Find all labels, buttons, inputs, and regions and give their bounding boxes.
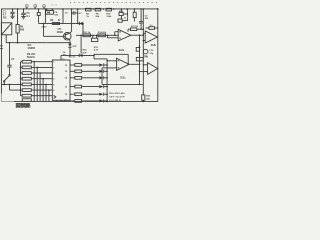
svg-text:C9085: C9085 bbox=[28, 47, 36, 50]
wire op1 out bbox=[131, 34, 144, 36]
left frame tick marks bbox=[0, 46, 3, 49]
node dot frame top-right corner bbox=[157, 8, 159, 10]
svg-text:IC2c: IC2c bbox=[120, 76, 126, 79]
wire feedback op3 out to bus bbox=[94, 54, 129, 65]
capacitor C9 right top bbox=[139, 8, 149, 30]
resistor R13 bbox=[83, 32, 91, 37]
svg-text:P≈0.3W Ω: P≈0.3W Ω bbox=[109, 99, 121, 102]
LED cathode bus bbox=[106, 59, 108, 102]
capacitor C3 drop bbox=[37, 8, 40, 23]
wire x63 bbox=[62, 8, 64, 23]
resistor R14 bbox=[98, 31, 107, 37]
capacitor C1 label bbox=[3, 11, 7, 17]
op-amp IC2c bbox=[117, 58, 130, 79]
resistor R5 bbox=[21, 77, 53, 101]
decorative dashed top edge bbox=[51, 3, 158, 7]
op-amp IC2d bbox=[139, 63, 158, 75]
wire mid band y35.3 bbox=[76, 34, 118, 36]
svg-text:IC2b: IC2b bbox=[151, 44, 157, 47]
paper speckle noise bbox=[4, 4, 158, 108]
resistor R7 bbox=[21, 89, 53, 102]
wire op3 out bbox=[129, 64, 140, 66]
resistor R4 bbox=[21, 72, 53, 102]
node dot rail x12.5 bbox=[12, 8, 14, 10]
node dot rail x23.5 bbox=[23, 8, 25, 10]
label plate 实用电路 bbox=[16, 102, 32, 109]
text IC1 block bbox=[27, 44, 36, 59]
svg-text:100k: 100k bbox=[106, 16, 112, 18]
wire collector riser bbox=[71, 8, 73, 31]
capacitor C5 bbox=[65, 8, 83, 24]
capacitor C8 circle bbox=[143, 49, 154, 55]
wire to IC pin16 bbox=[61, 55, 94, 58]
resistor R10 on rail bbox=[106, 8, 112, 18]
svg-text:R16~R21 43k: R16~R21 43k bbox=[109, 92, 125, 95]
svg-text:5kΩ×8: 5kΩ×8 bbox=[27, 56, 35, 59]
svg-text:680: 680 bbox=[20, 29, 25, 32]
wire y23.4 branch bbox=[39, 8, 83, 23]
text R15 bbox=[94, 47, 99, 52]
scan fade bottom-left corner bbox=[0, 94, 14, 104]
node dots rail resistors bbox=[92, 8, 128, 10]
resistor R7 feedback bbox=[128, 26, 144, 32]
wire op3 in1 bbox=[106, 60, 116, 61]
svg-text:R13 1k: R13 1k bbox=[83, 32, 91, 34]
svg-text:VD7~12×2CP: VD7~12×2CP bbox=[109, 96, 125, 99]
wire left y84.4 bbox=[1, 84, 20, 86]
svg-text:2CP: 2CP bbox=[72, 46, 77, 48]
LED row 4: resistor R19 + diode VD10 bbox=[70, 85, 108, 88]
node dot rail x17.5 bbox=[17, 8, 19, 10]
svg-text:R14 20k: R14 20k bbox=[98, 31, 107, 34]
resistor R5 bbox=[16, 9, 25, 43]
op-amp IC2b bbox=[143, 31, 158, 47]
wire node A (main horizontal y42.7) bbox=[6, 42, 71, 44]
node tag 3 bbox=[43, 5, 46, 9]
vertical rail x143.3 bbox=[143, 8, 145, 84]
diode VD3 bbox=[79, 54, 82, 57]
wire drop x107.4 to op3 bbox=[107, 35, 118, 38]
wire base drop x43.5 bbox=[41, 23, 47, 37]
bus left of ladder bbox=[20, 62, 21, 96]
wire emitter drop bbox=[69, 41, 71, 43]
potentiometer RW bbox=[136, 55, 149, 61]
svg-text:2CP: 2CP bbox=[82, 52, 87, 54]
resistor R8 bbox=[21, 94, 53, 97]
resistor R3 bbox=[21, 66, 53, 101]
diode VD5 bbox=[68, 44, 77, 56]
svg-text:0.1: 0.1 bbox=[26, 15, 30, 18]
photoresistor RG bbox=[1, 17, 11, 43]
diode VD6 loop bbox=[118, 8, 128, 22]
capacitor C10 top bbox=[146, 25, 158, 29]
ground (C2) bbox=[21, 17, 25, 19]
resistor R8 on rail bbox=[86, 8, 92, 18]
node tag 2 bbox=[34, 5, 37, 9]
ground (C1) bbox=[10, 16, 14, 18]
svg-text:RG: RG bbox=[3, 17, 7, 20]
wire x9.5 to row6 bbox=[10, 84, 21, 90]
svg-text:实用电路: 实用电路 bbox=[16, 102, 32, 109]
text LED block values bbox=[109, 92, 125, 102]
LED row 1: resistor R16 + diode VD7 bbox=[70, 63, 108, 66]
resistor R12 vertical top bbox=[133, 8, 136, 21]
resistor R2 bbox=[21, 60, 53, 101]
svg-text:17.1×4: 17.1×4 bbox=[51, 4, 59, 7]
vertical rail x139.5 bbox=[136, 35, 140, 85]
wire drop x114.8 bbox=[114, 32, 118, 36]
component C4 bbox=[46, 8, 59, 16]
IC U1 box bbox=[52, 57, 76, 102]
resistor R9 on rail bbox=[95, 8, 101, 18]
wire bottom mid y84.6 bbox=[102, 83, 143, 85]
LED row 2: resistor R17 + diode VD8 bbox=[70, 70, 108, 73]
capacitor C1 bbox=[10, 9, 14, 16]
svg-text:220V: 220V bbox=[41, 27, 47, 29]
diode VD4 bbox=[79, 22, 83, 36]
trimmer RP1 below bbox=[92, 35, 98, 42]
capacitor C2 bbox=[21, 9, 30, 18]
switch K bbox=[3, 75, 10, 85]
transistor VT1 bbox=[44, 29, 72, 41]
border frame / supply rails bbox=[1, 9, 157, 102]
LED row 3: resistor R18 + diode VD9 bbox=[70, 76, 108, 79]
node tag 1 bbox=[25, 5, 28, 9]
wire op3 in2 bbox=[102, 68, 117, 85]
svg-text:R7 510: R7 510 bbox=[131, 26, 139, 28]
LED row 5: resistor R20 + diode VD11 bbox=[70, 93, 108, 96]
svg-text:VT1: VT1 bbox=[57, 29, 62, 31]
wire to bus top bbox=[93, 54, 107, 59]
op-amp IC2a bbox=[118, 29, 131, 52]
wire drop x81.1 bbox=[80, 35, 87, 55]
resistor R22 bottom right bbox=[142, 84, 151, 102]
LED row 6: resistor R21 + diode VD12 bbox=[70, 99, 108, 102]
text C6 bbox=[63, 52, 67, 57]
svg-text:IC2a: IC2a bbox=[119, 49, 125, 52]
resistor R6 bbox=[50, 19, 61, 24]
svg-text:R11 1k: R11 1k bbox=[69, 57, 76, 59]
svg-text:3DG6: 3DG6 bbox=[57, 32, 64, 34]
resistor R6 bbox=[21, 83, 53, 101]
resistor R9 bottom row bbox=[22, 99, 31, 102]
capacitor C7 bbox=[7, 43, 15, 75]
